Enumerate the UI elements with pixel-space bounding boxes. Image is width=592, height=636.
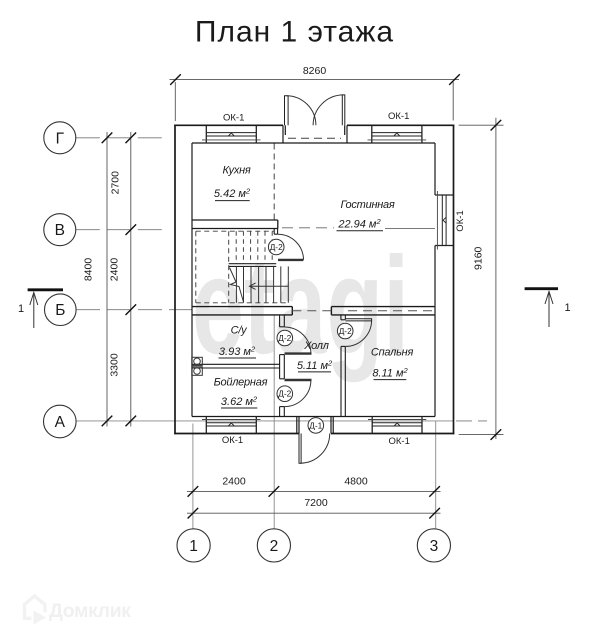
grid axis B [76, 309, 192, 311]
grid circle V [44, 214, 76, 246]
section marker right [525, 289, 571, 327]
right wall outer edge [453, 125, 455, 435]
svg-text:Д-2: Д-2 [278, 389, 291, 399]
grid axis A right segment [456, 420, 487, 422]
label kitchen area underline [215, 200, 250, 202]
wall B (grid B) band [192, 307, 435, 315]
boiler equipment square 2 [192, 367, 203, 376]
svg-text:А: А [55, 414, 66, 431]
svg-text:9160: 9160 [473, 246, 485, 270]
entrance door right leaf [342, 95, 345, 125]
left dimension line total 8400 [106, 132, 108, 427]
stair door D-2 arc [278, 234, 304, 260]
svg-text:3300: 3300 [108, 353, 120, 377]
left dimension line segments [130, 132, 132, 427]
right dimension line 9160 [495, 118, 497, 439]
window OK-1 bottom-left [202, 417, 261, 434]
watermark Domklik icon [25, 596, 47, 625]
window OK-1 bottom-right [368, 417, 426, 434]
window OK-1 top-left [202, 125, 261, 143]
entry door D-1 arc [300, 434, 330, 464]
svg-text:Спальня: Спальня [371, 347, 414, 359]
svg-text:3: 3 [430, 538, 439, 555]
svg-text:3.93 м2: 3.93 м2 [219, 345, 256, 359]
svg-text:5.42 м2: 5.42 м2 [214, 186, 251, 200]
stairs dashed boundary bottom [196, 302, 288, 304]
bedroom door D-2 leaf [345, 319, 371, 321]
svg-text:ОК-1: ОК-1 [389, 436, 410, 447]
svg-text:4800: 4800 [344, 476, 368, 488]
grid line 2 vertical [273, 315, 275, 528]
door circle D-2 boiler [277, 386, 293, 402]
right dimension extension lines [459, 125, 504, 434]
door circle D-1 entry [308, 418, 324, 434]
entrance door left arc [286, 96, 316, 126]
left dimension ticks line1 [102, 133, 113, 427]
right wall inner edge lower segment [434, 246, 436, 417]
svg-text:Холл: Холл [303, 340, 328, 352]
stair hall partition stub [274, 229, 277, 235]
entrance door left leaf [285, 96, 289, 126]
bottom dimension line 1 [187, 490, 441, 492]
door circle D-2 bedroom [337, 323, 353, 339]
grid circle G [44, 122, 76, 154]
label bedroom area underline [374, 379, 407, 381]
entrance door threshold dashes [288, 137, 341, 139]
svg-text:ОК-1: ОК-1 [222, 435, 243, 446]
grid circle 3 [417, 529, 450, 562]
svg-text:Кухня: Кухня [222, 165, 250, 177]
svg-text:7200: 7200 [304, 497, 328, 509]
window OK-1 right wall [435, 191, 454, 250]
svg-text:Г: Г [56, 130, 65, 147]
stair break line [230, 268, 244, 303]
grid circle B [45, 294, 77, 326]
lower stair flight risers [236, 266, 288, 302]
top dimension ticks [170, 74, 460, 85]
svg-text:План 1 этажа: План 1 этажа [195, 16, 394, 49]
right dimension ticks [491, 120, 502, 440]
grid axis V [76, 229, 168, 231]
left wall inner edge [191, 143, 193, 417]
bathroom door D-2 arc [284, 327, 311, 354]
bottom dimension ticks [188, 486, 440, 518]
svg-text:В: В [55, 222, 65, 239]
top wall outer edge right of entrance door [347, 124, 454, 126]
stair door D-2 leaf [278, 259, 303, 261]
kitchen-living dashed boundary (axis 2) [273, 144, 275, 221]
svg-text:Д-2: Д-2 [278, 333, 291, 343]
right wall inner edge upper segment [434, 143, 436, 195]
svg-text:Домклик: Домклик [49, 600, 131, 622]
grid axis A [76, 420, 453, 422]
svg-text:2400: 2400 [108, 258, 120, 282]
wall B opening dashed lintel [292, 310, 331, 312]
stair direction arrow [250, 283, 289, 289]
top wall outer edge left of entrance door [174, 124, 283, 126]
top dimension line 8260 [170, 79, 460, 81]
boiler equipment square 1 [192, 357, 203, 365]
grid axis V dashed in living room [282, 227, 334, 229]
label hall area underline [298, 371, 331, 373]
svg-text:etagi: etagi [192, 228, 409, 383]
upper stair flight dashed risers [236, 231, 272, 264]
bathroom east wall upper segment [280, 315, 285, 327]
svg-text:1: 1 [564, 302, 570, 314]
entrance double door jambs [283, 125, 347, 143]
top dimension extension lines [175, 82, 453, 121]
boiler room door D-2 leaf [285, 379, 312, 381]
grid circle 1 [177, 529, 210, 562]
grid line 1 vertical [192, 424, 194, 529]
grid axis V solid segment to right wall [385, 227, 435, 229]
svg-text:ОК-1: ОК-1 [223, 112, 244, 123]
grid circle A [44, 405, 77, 438]
svg-text:Д-2: Д-2 [339, 326, 352, 336]
door circle D-2 bathroom [277, 330, 293, 346]
label bathroom area underline [219, 357, 257, 359]
svg-text:Д-1: Д-1 [309, 420, 322, 430]
svg-text:2700: 2700 [109, 171, 121, 195]
left dimension ticks line2 [126, 133, 137, 427]
wall B dashed centerline over bedroom [348, 310, 434, 312]
svg-text:Д-2: Д-2 [270, 242, 283, 252]
window OK-1 top-right [368, 125, 427, 143]
svg-text:22.94 м2: 22.94 м2 [337, 217, 381, 231]
bedroom door D-2 arc [345, 321, 371, 347]
bathroom door D-2 leaf [285, 352, 312, 354]
entry door D-1 leaf [299, 434, 301, 464]
label boiler room area underline [221, 407, 257, 409]
bathroom-boiler dividing wall [192, 364, 280, 368]
kitchen south wall [192, 220, 278, 229]
svg-text:5.11 м2: 5.11 м2 [297, 359, 333, 373]
stairs dashed boundary top [196, 230, 274, 232]
section marker left [18, 290, 63, 328]
svg-text:8400: 8400 [82, 258, 94, 282]
top wall inner edge [192, 142, 435, 144]
svg-text:2400: 2400 [222, 476, 246, 488]
bottom wall outer edge left of entry door [174, 433, 299, 435]
svg-text:8260: 8260 [303, 65, 327, 77]
svg-text:1: 1 [18, 303, 24, 315]
svg-text:ОК-1: ОК-1 [388, 111, 409, 122]
grid line 3 vertical [435, 421, 437, 528]
svg-text:Гостинная: Гостинная [340, 199, 394, 211]
label living room area underline [337, 230, 384, 232]
boiler room door D-2 arc [284, 380, 311, 407]
door circle D-2 stairs [268, 239, 284, 255]
entrance door right arc [313, 95, 343, 125]
bathroom east wall middle segment [280, 355, 285, 379]
bathroom east wall lower segment [280, 407, 285, 417]
svg-text:8.11 м2: 8.11 м2 [372, 366, 408, 380]
bottom wall outer edge right of entry door [331, 433, 454, 435]
grid circle 2 [257, 529, 290, 562]
svg-text:ОК-1: ОК-1 [455, 210, 466, 231]
left wall outer edge [174, 125, 176, 435]
svg-text:Б: Б [55, 302, 65, 319]
svg-text:2: 2 [270, 538, 279, 555]
svg-text:1: 1 [189, 538, 198, 555]
stairs dashed flight left edge [228, 231, 230, 303]
svg-text:3.62 м2: 3.62 м2 [221, 394, 258, 408]
hall-bedroom wall [341, 346, 345, 416]
svg-text:С/у: С/у [231, 325, 249, 337]
stairs dashed boundary left [195, 231, 197, 303]
svg-text:Бойлерная: Бойлерная [214, 377, 268, 389]
grid axis G [76, 137, 168, 139]
entry door D-1 jambs [297, 417, 333, 434]
bottom wall inner edge [192, 416, 435, 418]
hall-bedroom wall top jamb [341, 315, 345, 320]
bottom dimension line 2 [187, 512, 441, 514]
stair landing edge double line [229, 264, 277, 267]
